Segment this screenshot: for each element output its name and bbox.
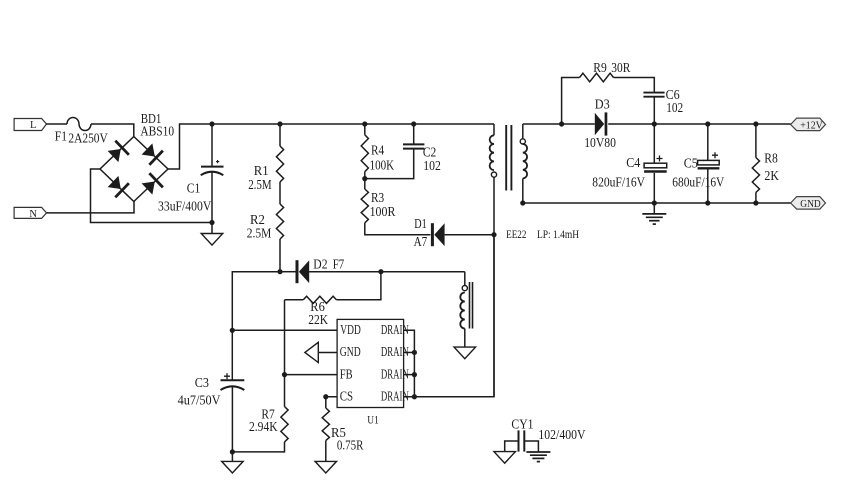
label 102 xyxy=(423,158,441,173)
svg-text:F1: F1 xyxy=(55,129,67,144)
wire xyxy=(562,78,580,125)
earth ground xyxy=(526,452,550,462)
bridge rectifier BD1 diamond xyxy=(100,137,168,202)
op-amp U1 box xyxy=(337,319,404,407)
ground xyxy=(222,452,244,473)
bridge diode top-left xyxy=(106,140,130,164)
label 10V80 xyxy=(584,135,616,150)
wire xyxy=(493,177,495,397)
wire xyxy=(232,272,337,331)
port GND xyxy=(791,197,826,210)
port +12V xyxy=(791,118,826,131)
label 2.94K xyxy=(249,419,278,434)
node dot xyxy=(362,121,367,126)
label 2A250V xyxy=(68,131,108,146)
wire xyxy=(365,223,431,235)
node dot xyxy=(520,200,525,205)
label 102 xyxy=(666,100,683,115)
svg-text:102: 102 xyxy=(666,100,683,115)
wire xyxy=(336,272,381,300)
svg-text:680uF/16V: 680uF/16V xyxy=(672,175,724,190)
svg-text:U1: U1 xyxy=(367,415,379,427)
label 102/400V xyxy=(538,427,585,442)
label 2.5M xyxy=(247,225,271,240)
polarity dot primary xyxy=(491,172,496,177)
svg-text:4u7/50V: 4u7/50V xyxy=(178,393,221,408)
bridge diode top-right xyxy=(140,142,164,166)
label A7 xyxy=(414,234,428,249)
svg-text:2.94K: 2.94K xyxy=(249,419,278,434)
wire xyxy=(523,123,562,125)
resistor R3 xyxy=(361,189,368,223)
wire xyxy=(522,178,524,203)
wire xyxy=(364,124,366,135)
wire xyxy=(608,123,790,125)
capacitor CY1 xyxy=(505,430,539,452)
wire xyxy=(231,330,233,379)
label C6 xyxy=(666,87,680,102)
svg-text:2A250V: 2A250V xyxy=(68,131,108,146)
diode D1 xyxy=(431,223,445,246)
wire xyxy=(47,123,68,125)
svg-text:820uF/16V: 820uF/16V xyxy=(592,175,645,190)
wire xyxy=(325,441,327,462)
ground xyxy=(315,461,337,473)
label 820uF/16V xyxy=(592,175,645,190)
node dot xyxy=(277,121,282,126)
node dot xyxy=(411,121,416,126)
svg-text:A7: A7 xyxy=(414,234,428,249)
capacitor C1 xyxy=(201,124,224,223)
wire xyxy=(91,169,213,223)
label C2 xyxy=(423,145,436,160)
wire xyxy=(285,374,338,376)
resistor R6 xyxy=(303,296,336,303)
node dot xyxy=(412,372,417,377)
svg-text:0.75R: 0.75R xyxy=(337,438,364,453)
node dot xyxy=(652,121,657,126)
label 680uF/16V xyxy=(672,175,724,190)
label R4 xyxy=(371,142,384,157)
label U1 xyxy=(367,415,379,427)
label R1 xyxy=(254,163,269,178)
node dot xyxy=(491,232,496,237)
svg-text:2.5M: 2.5M xyxy=(248,177,272,192)
svg-text:102/400V: 102/400V xyxy=(538,427,585,442)
resistor R5 xyxy=(322,408,329,441)
label R9 xyxy=(593,60,607,75)
node dot xyxy=(705,121,710,126)
svg-text:30R: 30R xyxy=(611,60,630,75)
label F7 xyxy=(333,256,345,271)
wire xyxy=(364,172,366,189)
node dot xyxy=(378,269,383,274)
pin DRAIN 7 xyxy=(381,344,409,359)
svg-text:102: 102 xyxy=(423,158,441,173)
wire xyxy=(284,300,286,375)
wire xyxy=(404,396,415,398)
wire xyxy=(404,374,415,376)
wire xyxy=(404,330,415,396)
capacitor C6 xyxy=(643,93,664,124)
wire xyxy=(404,351,415,353)
port L xyxy=(14,119,46,132)
svg-text:D1: D1 xyxy=(414,216,427,231)
pin FB xyxy=(340,366,353,381)
svg-text:C4: C4 xyxy=(626,155,640,170)
node dot xyxy=(323,394,328,399)
node dot xyxy=(412,350,417,355)
label C5 xyxy=(684,155,698,170)
svg-text:R9: R9 xyxy=(593,60,607,75)
node dot xyxy=(209,121,214,126)
svg-text:DRAIN: DRAIN xyxy=(381,322,409,337)
svg-text:GND: GND xyxy=(340,344,361,359)
svg-text:R3: R3 xyxy=(371,190,384,205)
resistor R7 xyxy=(281,407,288,443)
gnd arrow U1 xyxy=(305,342,337,362)
transformer primary winding xyxy=(490,124,494,170)
svg-text:33uF/400V: 33uF/400V xyxy=(158,199,212,214)
svg-text:D3: D3 xyxy=(595,97,610,112)
polarity dot secondary xyxy=(520,139,525,144)
label 2K xyxy=(764,168,779,183)
node dot xyxy=(362,176,367,181)
node dot xyxy=(209,220,214,225)
label 30R xyxy=(611,60,630,75)
port N xyxy=(14,207,46,219)
ground xyxy=(201,223,223,246)
svg-text:LP: 1.4mH: LP: 1.4mH xyxy=(537,227,579,241)
wire xyxy=(755,193,757,204)
node dot xyxy=(282,372,287,377)
svg-text:10V80: 10V80 xyxy=(584,135,616,150)
svg-text:D2: D2 xyxy=(313,256,327,271)
svg-text:EE22: EE22 xyxy=(506,227,526,241)
wire xyxy=(562,123,595,125)
label ABS10 xyxy=(140,124,174,139)
svg-text:C3: C3 xyxy=(195,375,209,390)
svg-text:100K: 100K xyxy=(370,158,395,173)
svg-text:C5: C5 xyxy=(684,155,698,170)
label 33uF/400V xyxy=(158,199,212,214)
label R3 xyxy=(371,190,384,205)
svg-text:CS: CS xyxy=(340,389,353,404)
wire xyxy=(285,299,304,301)
node dot xyxy=(705,200,710,205)
capacitor C2 xyxy=(365,124,425,179)
capacitor C3 xyxy=(221,373,245,452)
diode D2 xyxy=(296,260,310,283)
label C3 xyxy=(195,375,209,390)
node dot xyxy=(559,121,564,126)
wire xyxy=(326,396,337,398)
label 22K xyxy=(308,312,328,327)
pin DRAIN 5 xyxy=(381,389,409,404)
resistor R1 xyxy=(276,146,283,182)
ground xyxy=(494,452,516,464)
wire xyxy=(47,202,135,213)
wire xyxy=(279,124,281,146)
transformer secondary winding xyxy=(523,124,527,178)
wire xyxy=(91,124,134,137)
wire xyxy=(414,235,494,397)
fuse F1 xyxy=(67,118,91,131)
svg-text:2K: 2K xyxy=(764,168,779,183)
svg-text:DRAIN: DRAIN xyxy=(381,344,409,359)
capacitor C5 xyxy=(698,124,720,203)
resistor R8 xyxy=(752,158,759,193)
svg-text:+12V: +12V xyxy=(800,120,823,131)
svg-text:F7: F7 xyxy=(333,256,345,271)
svg-text:100R: 100R xyxy=(370,204,396,219)
label BD1 xyxy=(141,111,162,126)
label CY1 xyxy=(511,416,533,431)
wire xyxy=(279,239,281,272)
label LP: 1.4mH xyxy=(537,227,579,241)
diode D3 xyxy=(595,112,608,135)
capacitor C4 xyxy=(644,124,667,203)
label R7 xyxy=(261,407,275,422)
node dot xyxy=(230,328,235,333)
svg-text:L: L xyxy=(30,120,36,131)
pin VDD xyxy=(340,322,361,337)
label R8 xyxy=(764,151,778,166)
node dot xyxy=(652,200,657,205)
label 4u7/50V xyxy=(178,393,221,408)
wire xyxy=(614,78,655,93)
label F1 xyxy=(55,129,67,144)
resistor R4 xyxy=(361,135,368,172)
svg-text:C1: C1 xyxy=(187,181,201,196)
resistor R2 xyxy=(276,204,283,239)
label D3 xyxy=(595,97,610,112)
label D2 xyxy=(313,256,327,271)
wire xyxy=(755,124,757,158)
transformer core xyxy=(506,125,511,191)
bridge diode bottom-right xyxy=(140,172,164,196)
label EE22 xyxy=(506,227,526,241)
label 100R xyxy=(370,204,396,219)
wire xyxy=(168,124,494,169)
node dot xyxy=(412,394,417,399)
node dot xyxy=(753,200,758,205)
svg-text:R1: R1 xyxy=(254,163,269,178)
wire xyxy=(280,271,296,273)
pin DRAIN 8 xyxy=(381,322,409,337)
pin GND xyxy=(340,344,361,359)
label R6 xyxy=(310,299,325,314)
wire xyxy=(284,375,286,407)
node dot xyxy=(753,121,758,126)
label R2 xyxy=(250,212,265,227)
label 100K xyxy=(370,158,395,173)
wire xyxy=(523,202,791,204)
svg-text:22K: 22K xyxy=(308,312,328,327)
svg-text:GND: GND xyxy=(800,199,821,210)
label 0.75R xyxy=(337,438,364,453)
wire xyxy=(325,397,327,408)
svg-text:CY1: CY1 xyxy=(511,416,533,431)
ground xyxy=(454,347,476,359)
pin DRAIN 6 xyxy=(381,366,409,381)
label 2.5M xyxy=(248,177,272,192)
wire xyxy=(445,234,494,236)
node dot xyxy=(277,269,282,274)
svg-text:FB: FB xyxy=(340,366,353,381)
label R5 xyxy=(331,425,346,440)
svg-text:2.5M: 2.5M xyxy=(247,225,271,240)
node dot xyxy=(230,449,235,454)
svg-text:N: N xyxy=(29,209,37,220)
svg-text:ABS10: ABS10 xyxy=(140,124,174,139)
svg-text:R8: R8 xyxy=(764,151,778,166)
wire xyxy=(309,271,465,273)
label C1 xyxy=(187,181,201,196)
label D1 xyxy=(414,216,427,231)
wire xyxy=(279,182,281,204)
resistor R9 xyxy=(580,73,614,82)
svg-text:R4: R4 xyxy=(371,142,384,157)
label C4 xyxy=(626,155,640,170)
ground xyxy=(642,203,666,224)
svg-text:VDD: VDD xyxy=(340,322,361,337)
pin CS xyxy=(340,389,353,404)
aux core xyxy=(470,282,473,329)
bridge diode bottom-left xyxy=(106,174,130,198)
wire xyxy=(232,442,284,452)
auxiliary winding xyxy=(460,272,467,347)
